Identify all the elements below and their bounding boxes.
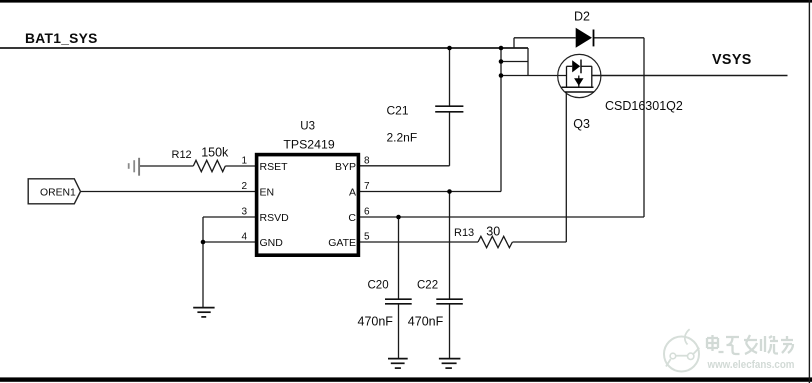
svg-text:7: 7 [364, 181, 370, 192]
svg-text:Q3: Q3 [573, 117, 590, 131]
svg-text:8: 8 [364, 155, 370, 166]
svg-text:2.2nF: 2.2nF [387, 130, 418, 144]
svg-text:CSD16301Q2: CSD16301Q2 [605, 99, 683, 113]
svg-text:GATE: GATE [328, 237, 356, 249]
svg-text:GND: GND [260, 237, 284, 249]
svg-text:C22: C22 [417, 280, 438, 292]
svg-text:470nF: 470nF [408, 314, 444, 328]
svg-text:4: 4 [241, 231, 247, 242]
svg-text:U3: U3 [300, 120, 315, 132]
svg-text:150k: 150k [201, 146, 229, 160]
svg-text:www.elecfans.com: www.elecfans.com [707, 359, 795, 371]
svg-text:2: 2 [241, 181, 247, 192]
svg-text:C20: C20 [368, 280, 389, 292]
svg-text:3: 3 [241, 206, 247, 217]
svg-text:A: A [349, 186, 356, 198]
svg-text:BAT1_SYS: BAT1_SYS [25, 31, 98, 46]
svg-text:30: 30 [486, 225, 500, 239]
svg-text:6: 6 [364, 206, 370, 217]
svg-text:5: 5 [364, 231, 370, 242]
svg-text:R13: R13 [454, 227, 474, 239]
svg-text:RSET: RSET [260, 161, 289, 173]
svg-text:C21: C21 [387, 103, 409, 117]
svg-text:1: 1 [241, 155, 247, 166]
svg-text:EN: EN [260, 186, 275, 198]
svg-text:BYP: BYP [335, 161, 356, 173]
svg-text:C: C [348, 212, 356, 224]
svg-text:R12: R12 [172, 149, 192, 161]
svg-text:VSYS: VSYS [712, 52, 752, 68]
svg-text:OREN1: OREN1 [40, 188, 76, 199]
svg-text:D2: D2 [574, 10, 590, 24]
svg-text:TPS2419: TPS2419 [283, 138, 334, 152]
svg-text:470nF: 470nF [358, 314, 394, 328]
svg-text:RSVD: RSVD [260, 212, 290, 224]
